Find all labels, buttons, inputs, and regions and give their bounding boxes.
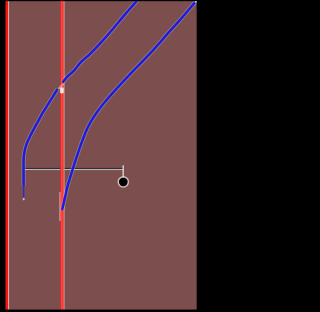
blue curve A halo xyxy=(24,0,138,186)
pale halo left of red line below curve B merge xyxy=(59,192,62,221)
red vertical line R2 (middle) xyxy=(60,1,63,309)
black dot halo xyxy=(118,177,128,187)
black dot xyxy=(119,178,128,187)
black frame: bottom xyxy=(0,310,200,312)
horizontal gray line (dark) xyxy=(23,168,123,169)
blue curve A (upper branch) xyxy=(63,0,138,83)
red line R2 bright core xyxy=(61,1,63,309)
red line R1 pink highlight xyxy=(8,1,9,309)
red vertical line R1 (left) xyxy=(6,1,9,309)
plumb line (white vertical) xyxy=(123,165,124,177)
white patch where curve A crosses red line R2 xyxy=(60,87,64,93)
horizontal gray line (white underline) xyxy=(24,169,123,170)
blue curve B (asymptotes to red line R2) xyxy=(62,0,197,210)
blue curve A thin tail xyxy=(23,185,25,199)
white streak along curve A gap at crossing xyxy=(58,84,63,89)
blue curve A (lower branch, asymptotes vertical) xyxy=(24,89,58,186)
blue curve B halo xyxy=(62,0,197,210)
white fleck at curve B top corner xyxy=(195,1,197,3)
plot background xyxy=(5,1,196,310)
plumb line dark edge xyxy=(123,167,126,178)
black frame: right xyxy=(197,0,200,312)
red line R2 pink highlight xyxy=(64,1,65,309)
curve A pale tail tip xyxy=(23,198,25,200)
black frame: top xyxy=(0,0,200,1)
black frame: left xyxy=(0,0,5,312)
